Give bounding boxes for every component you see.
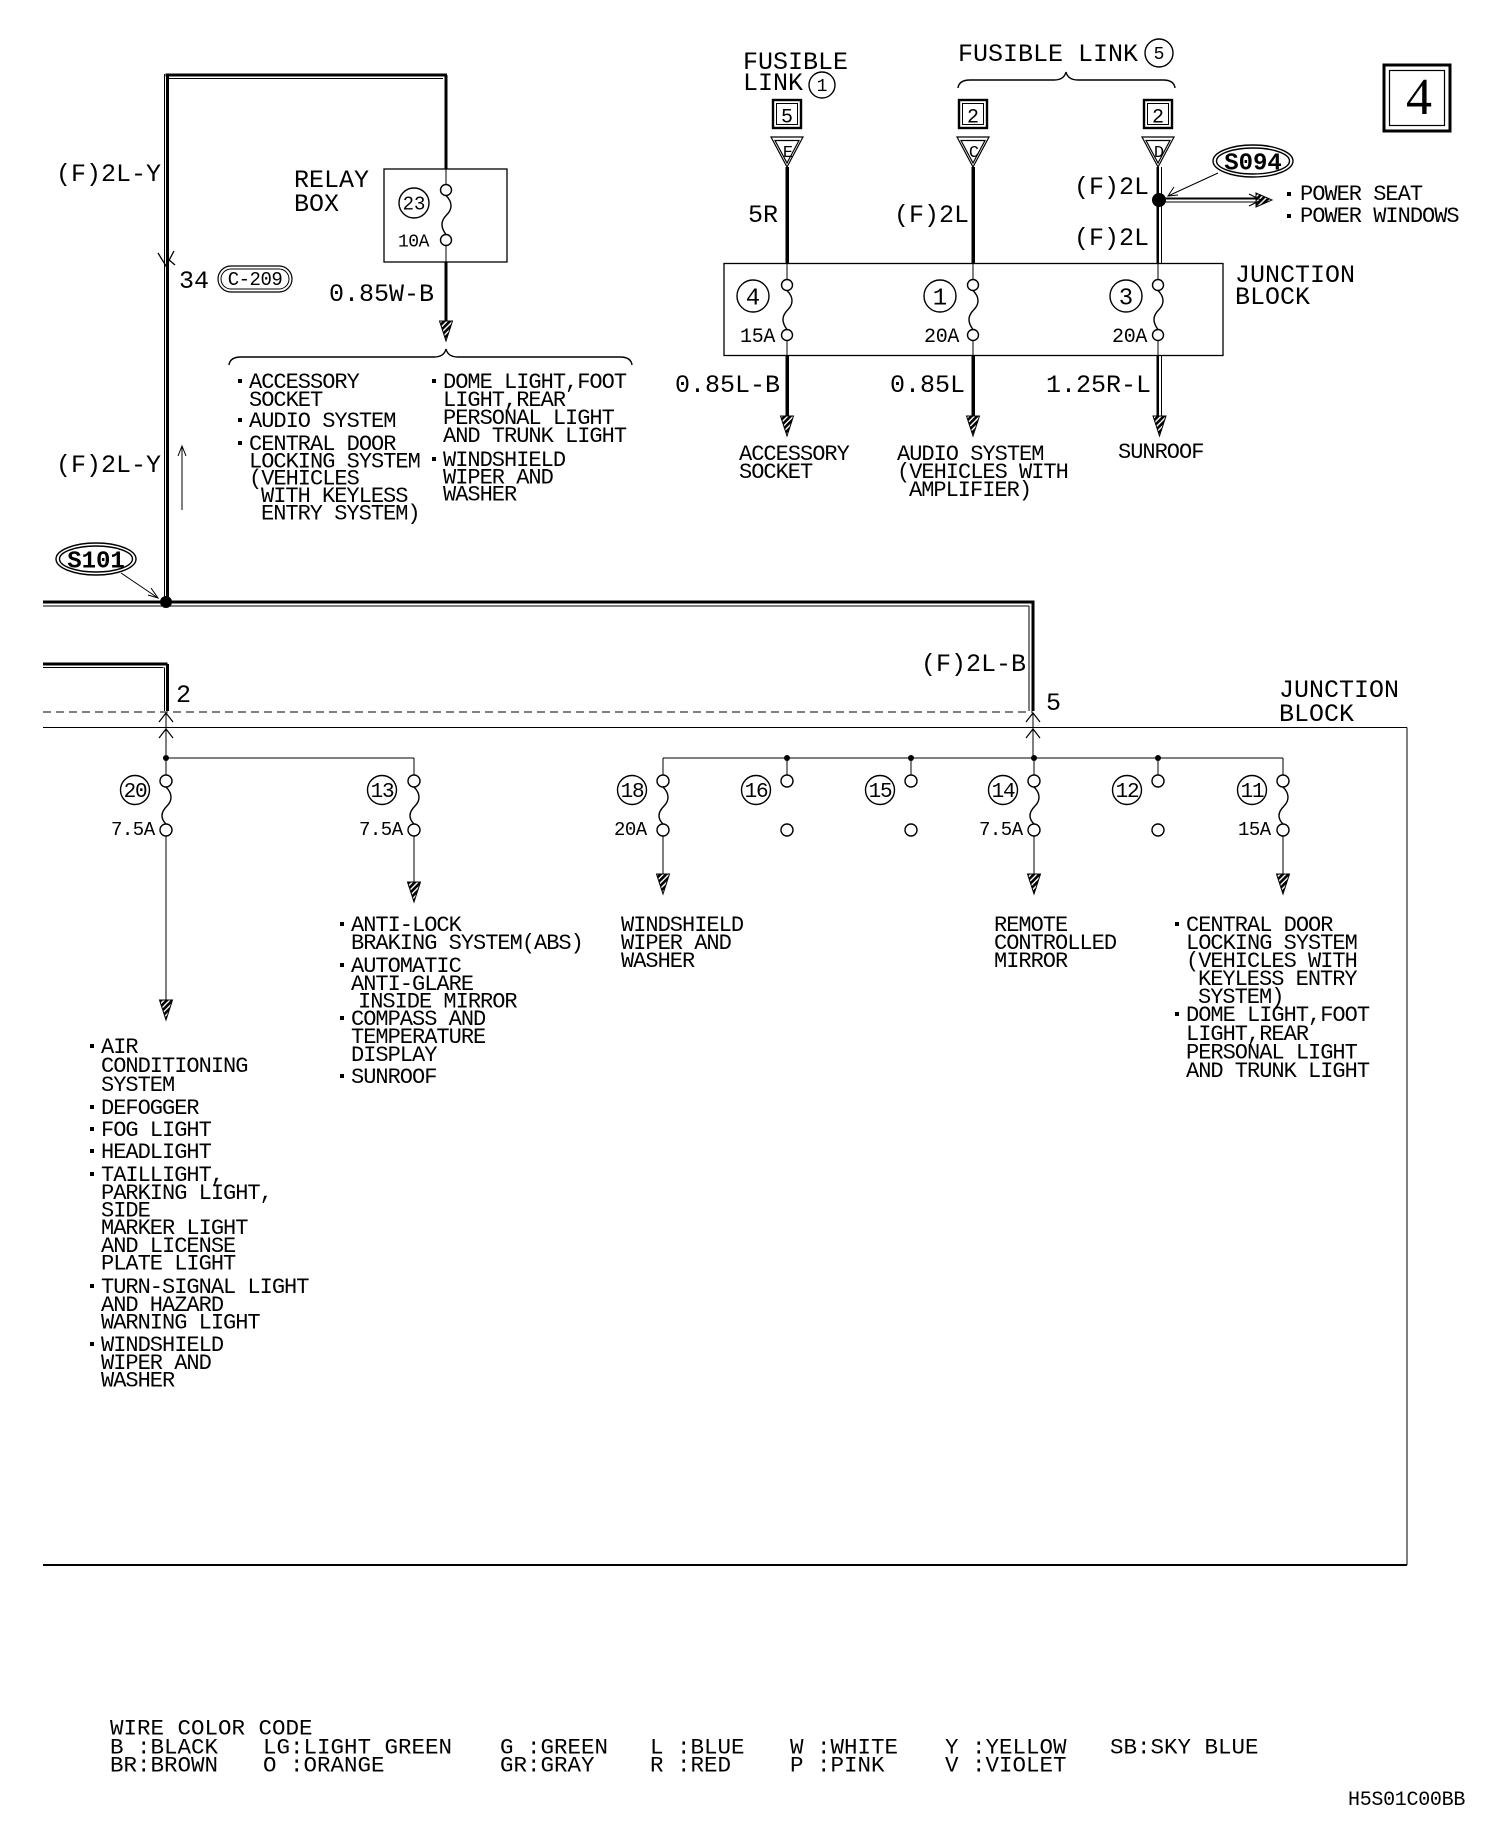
wire (F)2L-B main bus horizontal <box>43 601 1035 604</box>
wire (F)2L from D to junction block (double line) <box>1156 167 1159 263</box>
fuse 3 20A <box>1157 264 1159 280</box>
empty fuse position 12 <box>1152 775 1164 787</box>
svg-text:4: 4 <box>746 285 760 312</box>
svg-text:15: 15 <box>869 781 892 804</box>
svg-text:7.5A: 7.5A <box>111 819 156 841</box>
svg-text:C: C <box>969 144 979 163</box>
fuse 1 20A <box>972 264 974 280</box>
svg-text:PLATE LIGHT: PLATE LIGHT <box>101 1252 236 1277</box>
destination list fuse 20: air conditioning etc <box>90 1044 94 1048</box>
svg-text:C-209: C-209 <box>228 269 283 291</box>
svg-text:(F)2L-Y: (F)2L-Y <box>56 160 161 189</box>
svg-text:1: 1 <box>817 77 828 97</box>
empty fuse position 16 <box>781 775 793 787</box>
page number box 4 <box>1384 65 1450 131</box>
destination list right column: dome light / windshield wiper <box>432 379 436 383</box>
label power seat / power windows <box>1287 192 1291 196</box>
junction block lower solid top edge <box>43 727 1407 729</box>
brace grouping 0.85W-B destinations <box>229 349 632 365</box>
fuse 11 15A <box>1277 775 1289 836</box>
svg-text:14: 14 <box>992 781 1015 804</box>
svg-text:5: 5 <box>1154 45 1165 65</box>
svg-text:2: 2 <box>967 107 979 130</box>
svg-text:AND TRUNK LIGHT: AND TRUNK LIGHT <box>1186 1059 1370 1084</box>
svg-text:4: 4 <box>1406 69 1432 126</box>
right fuse bus <box>663 757 1283 759</box>
wire below fuse 13 with arrow <box>413 836 415 883</box>
direction arrow beside wire <box>181 447 183 510</box>
svg-text:SB:SKY BLUE: SB:SKY BLUE <box>1110 1735 1259 1761</box>
destination list left column: accessory socket / audio system / central door locking <box>238 379 242 383</box>
wire (F)2L-Y drop into relay box <box>445 75 448 169</box>
wire below fuse 18 with arrow <box>662 836 664 875</box>
fuse 18 20A <box>657 775 669 836</box>
wire 1.25R-L to sunroof (double line) <box>1156 356 1159 422</box>
svg-text:S101: S101 <box>67 549 125 576</box>
svg-text:R :RED: R :RED <box>650 1753 731 1779</box>
circled 5 of fusible link <box>1145 39 1173 67</box>
svg-text:P :PINK: P :PINK <box>790 1753 885 1779</box>
destination list fuse 11: central door locking / dome light <box>1175 922 1179 926</box>
connector box 2 (fusible link D) <box>1144 100 1172 130</box>
svg-text:SUNROOF: SUNROOF <box>351 1065 436 1090</box>
wire (F)2L-B vertical drop to junction block pin 5 <box>1032 602 1035 711</box>
splice S094 callout ellipse <box>1213 145 1293 178</box>
entry arrows pin 5 <box>1026 713 1040 722</box>
svg-text:POWER WINDOWS: POWER WINDOWS <box>1300 204 1459 229</box>
svg-text:2: 2 <box>1152 107 1164 130</box>
svg-text:BR:BROWN: BR:BROWN <box>110 1753 218 1779</box>
empty fuse position 15 <box>905 775 917 787</box>
svg-text:7.5A: 7.5A <box>979 819 1024 841</box>
svg-text:1: 1 <box>933 285 947 312</box>
connector C-209 break mark on wire <box>158 251 174 266</box>
svg-text:20A: 20A <box>614 819 648 841</box>
svg-text:LINK: LINK <box>743 69 803 98</box>
wire 0.85L-B to accessory socket <box>785 356 789 422</box>
svg-text:15A: 15A <box>740 326 775 349</box>
junction dot S101 <box>160 596 172 608</box>
svg-text:ENTRY SYSTEM): ENTRY SYSTEM) <box>261 501 420 526</box>
wire (F)2L from C to junction block <box>971 167 975 263</box>
svg-text:(F)2L: (F)2L <box>1074 173 1149 202</box>
fuse 4 15A <box>786 264 788 280</box>
svg-text:HEADLIGHT: HEADLIGHT <box>101 1140 212 1165</box>
svg-text:5: 5 <box>1046 689 1061 718</box>
svg-text:AMPLIFIER): AMPLIFIER) <box>909 478 1031 503</box>
branch arrow to power seat / power windows <box>1159 198 1258 200</box>
svg-text:FUSIBLE LINK: FUSIBLE LINK <box>958 40 1138 69</box>
svg-text:AND TRUNK LIGHT: AND TRUNK LIGHT <box>443 424 627 449</box>
svg-text:0.85L: 0.85L <box>890 371 965 400</box>
svg-text:20A: 20A <box>1112 326 1147 349</box>
wire below fuse 20 with arrow <box>165 836 167 1001</box>
svg-text:BLOCK: BLOCK <box>1279 700 1354 729</box>
svg-text:11: 11 <box>1241 781 1264 804</box>
svg-text:0.85L-B: 0.85L-B <box>675 371 780 400</box>
svg-text:15A: 15A <box>1238 819 1272 841</box>
junction block lower right edge <box>1406 728 1408 1566</box>
svg-text:13: 13 <box>371 781 394 804</box>
svg-text:5R: 5R <box>748 201 778 230</box>
connector box 2 (fusible link C) <box>959 100 987 130</box>
svg-text:E: E <box>783 144 793 163</box>
svg-text:1.25R-L: 1.25R-L <box>1046 371 1151 400</box>
junction block lower dashed top edge <box>43 711 1033 713</box>
leader arrow from S101 to junction <box>121 573 158 598</box>
fuse 14 7.5A <box>1028 775 1040 836</box>
svg-text:AUDIO SYSTEM: AUDIO SYSTEM <box>249 409 395 434</box>
svg-text:D: D <box>1154 144 1164 163</box>
svg-text:18: 18 <box>621 781 644 804</box>
splice S101 callout ellipse <box>56 543 136 576</box>
wire (F)2L-Y vertical run down to S101 <box>164 74 166 601</box>
svg-text:BRAKING SYSTEM(ABS): BRAKING SYSTEM(ABS) <box>351 931 583 956</box>
fuse 23 10A inside relay box <box>445 169 447 185</box>
junction block upper outline <box>724 264 1223 356</box>
svg-text:3: 3 <box>1119 285 1133 312</box>
svg-text:BOX: BOX <box>294 190 339 219</box>
svg-text:GR:GRAY: GR:GRAY <box>500 1753 595 1779</box>
svg-text:20A: 20A <box>924 326 959 349</box>
svg-text:WASHER: WASHER <box>443 483 517 508</box>
svg-text:(F)2L: (F)2L <box>1074 224 1149 253</box>
wire 5R from E to junction block <box>785 167 789 263</box>
svg-text:10A: 10A <box>398 232 430 252</box>
svg-text:2: 2 <box>176 681 191 710</box>
leader arrow from S094 to junction dot <box>1168 173 1218 196</box>
svg-text:H5S01C00BB: H5S01C00BB <box>1348 1789 1465 1812</box>
svg-text:(F)2L: (F)2L <box>894 201 969 230</box>
svg-text:SOCKET: SOCKET <box>739 460 813 485</box>
connector box 5 (fusible link E) <box>773 100 801 130</box>
svg-text:MIRROR: MIRROR <box>994 949 1068 974</box>
triangle terminal D <box>1142 137 1174 167</box>
relay box outline <box>384 169 507 262</box>
wire below fuse 14 with arrow <box>1033 836 1035 875</box>
svg-text:(F)2L-Y: (F)2L-Y <box>56 451 161 480</box>
svg-text:12: 12 <box>1116 781 1139 804</box>
svg-text:WASHER: WASHER <box>621 949 695 974</box>
svg-text:20: 20 <box>124 781 147 804</box>
svg-text:7.5A: 7.5A <box>359 819 404 841</box>
wire below fuse 11 with arrow <box>1282 836 1284 875</box>
wire 0.85L to audio system <box>971 356 975 422</box>
triangle terminal C <box>957 137 989 167</box>
svg-text:34: 34 <box>179 267 209 296</box>
svg-text:0.85W-B: 0.85W-B <box>329 280 434 309</box>
fuse 13 7.5A <box>408 775 420 836</box>
svg-text:BLOCK: BLOCK <box>1235 283 1310 312</box>
junction dot S094 <box>1152 193 1166 207</box>
junction block lower bottom edge <box>43 1564 1407 1566</box>
entry arrows pin 2 <box>159 713 173 722</box>
triangle terminal E <box>771 137 803 167</box>
left fuse bus <box>166 757 414 759</box>
wire (F)2L-Y horizontal run from pin 34 column to relay box <box>166 74 448 77</box>
svg-text:SUNROOF: SUNROOF <box>1118 440 1203 465</box>
brace under fusible link 5 <box>958 72 1175 88</box>
wire stub from off-page into pin 2 <box>43 663 168 666</box>
circled 1 of fusible link <box>809 72 835 98</box>
svg-text:5: 5 <box>781 107 793 130</box>
svg-text:23: 23 <box>403 194 426 216</box>
svg-text:S094: S094 <box>1224 151 1282 178</box>
destination list fuse 13: ABS etc <box>340 922 344 926</box>
connector label C-209 stadium <box>218 266 292 292</box>
svg-text:(F)2L-B: (F)2L-B <box>921 650 1026 679</box>
svg-text:WASHER: WASHER <box>101 1369 175 1394</box>
svg-text:O :ORANGE: O :ORANGE <box>263 1753 385 1779</box>
svg-text:V :VIOLET: V :VIOLET <box>945 1753 1067 1779</box>
wire 0.85W-B below relay box with arrow <box>445 262 448 325</box>
fuse 20 7.5A <box>160 775 172 836</box>
svg-text:SYSTEM: SYSTEM <box>101 1073 174 1098</box>
svg-text:WARNING LIGHT: WARNING LIGHT <box>101 1311 260 1336</box>
svg-text:16: 16 <box>745 781 768 804</box>
